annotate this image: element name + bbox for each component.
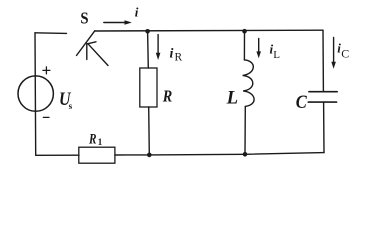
switch S arrowhead barb [87, 42, 96, 60]
svg-text:S: S [80, 9, 88, 28]
node junction top L [242, 29, 247, 34]
wire R branch bottom [148, 107, 151, 155]
wire R branch top [147, 31, 150, 68]
plus polarity mark [43, 67, 50, 74]
wire bottom from R1 to node R bottom [115, 154, 149, 156]
current arrow i [104, 20, 132, 24]
current arrow iL [256, 38, 261, 58]
svg-text:C: C [341, 46, 349, 60]
wire top-left stub from source to switch [35, 32, 67, 35]
wire top main from switch to right corner [95, 29, 323, 32]
switch S actuate arrow shaft [88, 44, 108, 66]
wire right vertical top to capacitor [322, 30, 324, 91]
svg-text:L: L [273, 49, 280, 61]
capacitor C top plate [309, 91, 337, 93]
current arrow iR [156, 35, 161, 60]
node junction top R [145, 29, 150, 34]
label iR [170, 47, 183, 64]
svg-text:i: i [170, 47, 174, 62]
voltage source Us circle [18, 76, 53, 111]
svg-text:C: C [296, 92, 307, 113]
svg-text:R: R [175, 51, 183, 63]
switch S blade [77, 31, 95, 56]
current arrow iC [331, 38, 336, 69]
svg-text:1: 1 [98, 137, 103, 147]
label C [296, 92, 307, 113]
label R1 [88, 132, 103, 148]
capacitor C bottom plate [308, 101, 336, 103]
wire bottom from node R to node L [149, 153, 245, 156]
svg-text:s: s [69, 101, 73, 111]
wire left vertical through source [34, 33, 37, 156]
label i [135, 5, 139, 20]
minus polarity mark [43, 116, 49, 118]
node junction bottom L [243, 152, 248, 157]
wire right vertical below capacitor [323, 102, 325, 153]
inductor L coil [243, 60, 254, 107]
label S [80, 9, 88, 28]
svg-text:R: R [88, 132, 96, 148]
node junction bottom R [147, 153, 152, 158]
label R [162, 86, 172, 105]
svg-text:L: L [226, 87, 238, 108]
resistor R body [140, 68, 157, 107]
wire bottom from node L to right corner [245, 153, 324, 155]
resistor R1 body [79, 147, 115, 163]
label iL [270, 42, 281, 61]
label L [226, 87, 238, 108]
wire bottom from left corner to R1 [36, 154, 79, 156]
label Us [59, 89, 73, 111]
svg-text:R: R [162, 86, 172, 105]
label iC [337, 40, 349, 60]
svg-text:i: i [135, 5, 139, 20]
wire L branch top [243, 31, 245, 60]
wire L branch bottom [244, 106, 246, 154]
